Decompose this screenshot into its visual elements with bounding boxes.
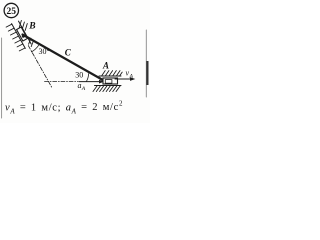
hatching left side of slot B — [6, 24, 25, 51]
variant circle — [4, 3, 18, 17]
svg-text:30: 30 — [75, 71, 83, 80]
block A — [103, 78, 118, 84]
hatching above top guide — [102, 71, 122, 76]
slider B rectangle — [17, 27, 28, 41]
slot guide line upper-left at B — [12, 24, 26, 49]
bottom formula text — [5, 100, 151, 116]
svg-text:C: C — [65, 47, 72, 57]
top guide line at A — [99, 75, 121, 77]
slot guide line lower-right at B — [19, 21, 32, 44]
svg-text:B: B — [28, 22, 35, 32]
svg-text:25: 25 — [7, 7, 17, 17]
svg-text:A: A — [81, 86, 86, 92]
rod B-C-A — [23, 35, 106, 82]
svg-text:A: A — [129, 74, 134, 80]
block inner line — [105, 80, 112, 84]
acceleration arrow aA — [79, 81, 101, 83]
dash-dot slot axis from B — [28, 46, 52, 89]
left page border — [1, 38, 3, 118]
angle arc at B — [31, 45, 38, 52]
right page border — [145, 30, 147, 97]
svg-text:30°: 30° — [39, 47, 50, 56]
svg-text:A: A — [102, 61, 109, 71]
hatching right side of slot B — [19, 20, 33, 46]
angle arc at A — [86, 74, 88, 82]
horizontal dash-dot reference line — [45, 81, 79, 83]
pin at slider B — [22, 35, 25, 38]
bottom guide line at A — [95, 85, 122, 87]
velocity arrow vA — [115, 78, 132, 80]
hatching below bottom guide — [93, 86, 120, 92]
right dark bar — [146, 61, 148, 85]
